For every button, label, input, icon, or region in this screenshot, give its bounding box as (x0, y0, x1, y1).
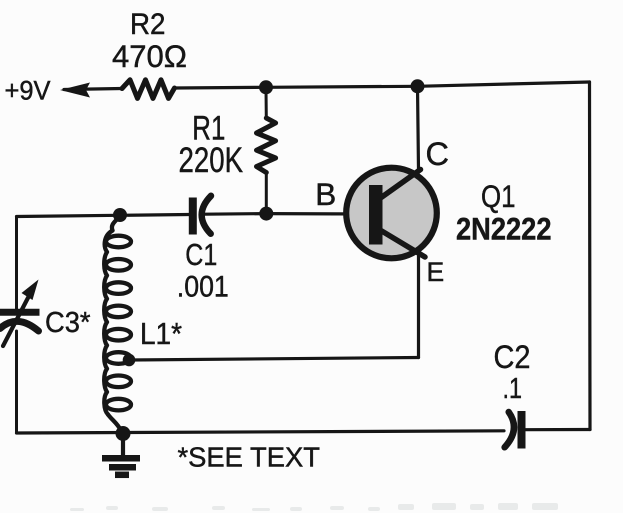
wire: R2 to node A (175, 86, 267, 90)
wire: bottom rail left of C2 (17, 431, 505, 433)
svg-text:C3*: C3* (45, 307, 91, 339)
capacitor C3 arrow (3, 292, 31, 346)
capacitor C1 left plate (189, 198, 197, 235)
svg-text:E: E (427, 257, 445, 287)
transistor Q1 body (346, 168, 437, 259)
transistor Q1 base bar (369, 185, 383, 245)
wire: emitter feedback to coil tap (130, 358, 419, 361)
node A (R2/R1 junction) (259, 80, 273, 94)
faint cropped caption text along bottom edge (70, 503, 558, 511)
resistor R1 bottom lead (265, 173, 268, 213)
wire: node A to node B (266, 86, 418, 87)
ground (121, 434, 125, 456)
svg-text:470Ω: 470Ω (112, 38, 187, 74)
svg-text:Q1: Q1 (481, 178, 516, 214)
node base (R1/C1/base junction) (259, 207, 273, 221)
svg-text:B: B (315, 176, 336, 212)
wire: right rail down (588, 82, 592, 430)
resistor R1 top lead (265, 89, 268, 118)
wire top rail: arrow shaft to R2 (64, 89, 122, 90)
svg-text:C: C (426, 136, 449, 172)
svg-text:R2: R2 (130, 8, 166, 41)
wire: left rail top corner to C3 (15, 217, 18, 309)
svg-text:2N2222: 2N2222 (456, 211, 552, 247)
inductor L1 top lead (112, 216, 120, 231)
inductor L1 bottom lead (108, 415, 121, 431)
wire: C3 to bottom-left corner (15, 331, 18, 433)
wire: node B to top-right corner (418, 82, 590, 86)
wire: emitter vertical (417, 255, 420, 358)
capacitor C2 right plate (518, 411, 526, 449)
capacitor C3 bottom plate (curved) (0, 321, 39, 331)
svg-text:220K: 220K (179, 141, 244, 180)
wire: top-left horizontal to C1 (17, 215, 190, 217)
svg-text:L1*: L1* (140, 316, 182, 351)
svg-text:*SEE TEXT: *SEE TEXT (178, 442, 321, 473)
wire: bottom rail right of C2 (526, 428, 591, 431)
node ground (L1 bottom junction) (116, 426, 131, 441)
inductor L1 spine (104, 231, 112, 415)
capacitor C1 right plate (curved) (202, 196, 211, 234)
node B (collector junction) (411, 79, 425, 93)
wire: collector vertical (418, 86, 419, 170)
capacitor C3 top plate (0, 309, 40, 316)
wire: base node to transistor base (266, 212, 371, 216)
node C (C1/L1 junction) (113, 208, 127, 222)
wire: C1 to base node (205, 212, 266, 216)
resistor R2 zigzag (122, 80, 175, 99)
svg-text:.001: .001 (177, 271, 229, 304)
capacitor C2 left plate (curved) (505, 412, 514, 447)
svg-text:C1: C1 (185, 237, 217, 272)
resistor R1 zigzag (257, 118, 276, 173)
transistor Q1 collector stroke (379, 170, 421, 200)
svg-text:C2: C2 (494, 339, 531, 375)
node tap (L1 tap junction) (123, 354, 136, 367)
+9V arrow head (60, 83, 90, 98)
transistor Q1 emitter stroke (380, 230, 425, 257)
inductor L1 loops (106, 236, 131, 248)
svg-text:+9V: +9V (5, 76, 51, 106)
svg-text:.1: .1 (503, 373, 523, 405)
